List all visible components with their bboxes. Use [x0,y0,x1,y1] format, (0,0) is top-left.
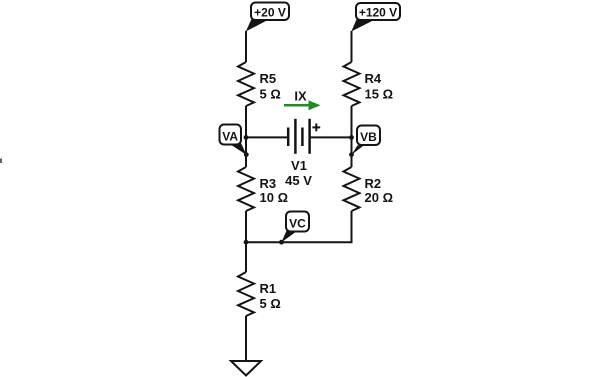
junction dot bottom node [244,240,249,245]
svg-text:R5: R5 [260,71,277,86]
svg-text:R4: R4 [365,71,382,86]
svg-text:VC: VC [289,217,306,231]
svg-text:VA: VA [222,130,238,144]
svg-text:R1: R1 [260,281,277,296]
wire: R1 to ground [245,316,247,361]
node +120V callout [351,3,400,32]
svg-text:45 V: 45 V [285,173,312,188]
svg-text:+20 V: +20 V [254,6,286,20]
battery V1 [288,119,309,154]
ground [231,361,261,376]
svg-text:5 Ω: 5 Ω [260,296,281,311]
resistor R5 [238,62,254,106]
current arrow IX [284,89,321,111]
wire: battery right lead [310,136,352,138]
svg-text:V1: V1 [291,158,307,173]
resistor R4 [344,62,360,106]
wire: left branch top (+20V to R5) [245,31,247,62]
probe dot VC [279,240,284,245]
node +20V callout [246,3,289,32]
resistor R3 [238,167,254,211]
wire: R3 to bottom node [245,211,247,272]
wire: R4 to R2 [351,106,353,167]
svg-text:5 Ω: 5 Ω [260,87,281,102]
wire: R2 down and across to bottom node [246,211,352,242]
junction dot node VA [244,135,249,140]
node VB callout [351,126,380,155]
svg-text:15 Ω: 15 Ω [365,87,394,102]
svg-text:R2: R2 [365,176,382,191]
probe dot VB [349,152,354,157]
probe dot VA [244,152,249,157]
svg-text:IX: IX [294,89,307,104]
svg-text:+120 V: +120 V [359,6,397,20]
edge artifact left [0,159,2,164]
wire: battery left lead [246,136,288,138]
resistor R2 [344,167,360,211]
wire: R5 to R3 [245,106,247,167]
node VC callout [281,212,309,243]
svg-text:10 Ω: 10 Ω [260,190,289,205]
junction dot node VB [349,135,354,140]
wire: right branch top (+120V to R4) [351,31,353,62]
svg-text:20 Ω: 20 Ω [365,190,394,205]
node VA callout [220,125,247,156]
svg-text:VB: VB [360,130,377,144]
battery plus sign [312,124,320,132]
svg-text:R3: R3 [260,176,277,191]
resistor R1 [238,272,254,316]
